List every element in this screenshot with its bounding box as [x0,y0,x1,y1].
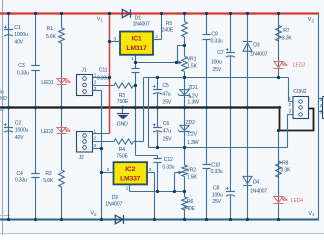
svg-text:C7: C7 [217,50,224,56]
svg-text:0.33u: 0.33u [162,164,174,170]
svg-text:V3: V3 [308,17,315,23]
svg-text:1.3W: 1.3W [187,140,199,146]
svg-text:R4: R4 [119,147,126,153]
svg-text:ZD1: ZD1 [188,85,198,91]
svg-text:J1: J1 [81,67,86,73]
svg-text:LED3: LED3 [293,63,305,69]
svg-text:40V: 40V [15,135,24,141]
svg-text:R2: R2 [45,171,52,177]
svg-text:240E: 240E [162,28,174,34]
svg-text:1.5K: 1.5K [187,175,198,181]
svg-text:1N4007: 1N4007 [133,22,150,28]
svg-text:750E: 750E [117,99,129,105]
svg-text:V4: V4 [308,211,315,217]
svg-text:C10: C10 [211,162,220,168]
svg-text:0.33u: 0.33u [211,38,223,44]
svg-text:R7: R7 [283,28,290,34]
svg-text:C3: C3 [18,63,25,69]
svg-text:1000u: 1000u [14,32,28,38]
svg-text:J2: J2 [79,155,84,161]
svg-text:47u: 47u [162,91,170,97]
svg-text:LED4: LED4 [291,198,303,204]
svg-text:D2: D2 [112,195,119,201]
svg-text:100u: 100u [211,60,222,66]
svg-text:25V: 25V [212,67,221,73]
svg-text:0.33u: 0.33u [15,177,27,183]
svg-text:5.6K: 5.6K [46,34,57,40]
svg-text:C8: C8 [213,185,220,191]
svg-text:3.3K: 3.3K [280,167,291,173]
svg-text:1N4007: 1N4007 [105,201,122,207]
svg-text:V1: V1 [97,16,104,22]
svg-text:IC1: IC1 [132,36,142,43]
svg-text:LM317: LM317 [126,45,147,52]
svg-text:40V: 40V [14,40,23,46]
svg-text:D1: D1 [135,15,142,21]
svg-text:in: in [0,89,4,95]
svg-text:C12: C12 [164,157,173,163]
svg-text:C5: C5 [162,83,169,89]
svg-text:VR1: VR1 [187,56,197,62]
svg-text:1.3W: 1.3W [187,100,199,106]
svg-text:C2: C2 [15,120,22,126]
svg-text:C6: C6 [163,121,170,127]
svg-text:0.33u: 0.33u [211,169,223,175]
svg-text:47u: 47u [163,129,171,135]
svg-text:750E: 750E [116,154,128,160]
svg-text:1N4007: 1N4007 [250,52,267,58]
svg-text:C9: C9 [211,31,218,37]
svg-text:R8: R8 [282,161,289,167]
svg-text:5.6K: 5.6K [43,178,54,184]
svg-text:VR2: VR2 [186,168,196,174]
svg-text:C4: C4 [17,171,24,177]
svg-text:100u: 100u [212,193,223,199]
svg-text:C1: C1 [14,25,21,31]
svg-text:LED2: LED2 [41,129,53,135]
svg-text:in: in [0,107,4,113]
svg-text:R5: R5 [166,21,173,27]
svg-text:C11: C11 [99,67,108,73]
svg-text:0.33u: 0.33u [97,76,109,82]
svg-text:1000u: 1000u [15,127,29,133]
svg-text:1.5K: 1.5K [187,64,198,70]
svg-text:D3: D3 [253,42,260,48]
svg-text:1.2V: 1.2V [187,132,198,138]
svg-text:25V: 25V [212,199,221,205]
svg-text:D4: D4 [253,179,260,185]
svg-text:LM337: LM337 [120,175,141,182]
svg-text:IC2: IC2 [125,166,135,173]
svg-text:CON2: CON2 [293,89,307,95]
svg-text:ZD2: ZD2 [186,120,196,126]
svg-text:ND: ND [0,96,7,102]
svg-text:LED1: LED1 [41,80,53,86]
svg-text:V2: V2 [90,211,97,217]
svg-text:R1: R1 [47,26,54,32]
svg-text:25V: 25V [162,99,171,105]
svg-text:GND: GND [117,122,128,128]
svg-text:1N4007: 1N4007 [250,188,267,194]
svg-text:25V: 25V [163,136,172,142]
svg-text:1.2V: 1.2V [188,93,199,99]
svg-text:R6: R6 [187,199,194,205]
svg-text:3.3K: 3.3K [282,36,293,42]
svg-text:240E: 240E [183,206,195,212]
svg-text:0.33u: 0.33u [17,70,29,76]
